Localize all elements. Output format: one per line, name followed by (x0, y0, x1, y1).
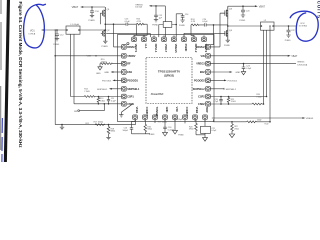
wire PGOOD2 (210, 80, 226, 82)
resistor R18 (107, 124, 110, 138)
svg-text:PGOOD1: PGOOD1 (102, 80, 112, 82)
ground C23 (241, 72, 245, 75)
wire VIN to VBAT (210, 55, 290, 57)
svg-text:PGND: PGND (285, 40, 291, 42)
svg-text:PGOOD2: PGOOD2 (228, 81, 238, 83)
wire PGOOD1 (112, 80, 121, 82)
svg-text:3.3 V/8 A: 3.3 V/8 A (299, 25, 308, 28)
svg-text:7.5kΩ: 7.5kΩ (84, 91, 90, 93)
svg-text:5 V/8 A: 5 V/8 A (28, 33, 35, 36)
svg-text:0.1µF: 0.1µF (111, 101, 117, 103)
svg-text:10kΩ: 10kΩ (257, 120, 262, 122)
svg-text:CUITS: CUITS (317, 1, 320, 19)
capacitor C24 (204, 23, 227, 26)
svg-text:100 mA: 100 mA (135, 6, 142, 9)
node VBAT left (80, 6, 105, 8)
resistor R24 (191, 24, 204, 37)
svg-text:3.3V/100mA: 3.3V/100mA (297, 63, 308, 66)
svg-text:DRVL1: DRVL1 (154, 44, 158, 53)
svg-text:VBST2: VBST2 (204, 44, 208, 53)
svg-text:VBAT: VBAT (72, 5, 79, 9)
wire DRVH2 bootstrap (210, 25, 213, 45)
svg-text:4.7Ω: 4.7Ω (137, 21, 142, 23)
svg-text:Figure 54. Current Mode, DCR S: Figure 54. Current Mode, DCR Sensing, 5-… (18, 2, 23, 149)
ground GND RF (98, 67, 102, 70)
svg-text:RF: RF (127, 63, 131, 66)
wire SKIPSEL1 (109, 88, 122, 90)
svg-text:TPS51220ARTV: TPS51220ARTV (158, 69, 180, 73)
wire L1 sense legs (71, 34, 75, 104)
pin labels top row vertical (134, 44, 208, 53)
wire SW1 to L1 (80, 29, 106, 31)
resistor R17 (95, 124, 105, 126)
svg-text:PowerPAD: PowerPAD (151, 93, 164, 96)
svg-text:EN2: EN2 (200, 71, 205, 74)
capacitor C13 (126, 23, 136, 26)
svg-text:VBAT: VBAT (259, 5, 266, 8)
labels small gray (28, 4, 314, 136)
capacitor C23 (242, 63, 246, 72)
svg-text:V5FILT: V5FILT (164, 44, 168, 53)
svg-text:VBST1: VBST1 (134, 44, 138, 53)
resistor R23 (247, 121, 271, 123)
node VREG5 (149, 5, 165, 37)
wire CSN1 (74, 103, 122, 105)
ground PGND C10 (90, 15, 94, 17)
PowerPAD callout (119, 104, 133, 118)
wire EN1 (111, 71, 122, 73)
pin labels bottom row vertical (135, 107, 209, 118)
page edge line (0, 0, 2, 150)
wire cluster L gnd (132, 133, 150, 135)
transistor Q3 (225, 6, 228, 19)
svg-text:R19 100kΩ: R19 100kΩ (158, 122, 168, 124)
wire divider VO2 (214, 119, 247, 121)
annotation blue loop right (290, 11, 318, 41)
svg-text:COMP1: COMP1 (145, 107, 149, 117)
wire VO1 feedback (55, 29, 56, 124)
wire DRVL2 (184, 33, 225, 37)
resistor R20 (195, 119, 205, 134)
svg-text:VO2: VO2 (300, 23, 305, 25)
svg-text:100kΩ: 100kΩ (101, 61, 107, 63)
ground PGND C15 (154, 20, 158, 22)
capacitor C21 box (201, 119, 211, 137)
svg-text:56kΩ: 56kΩ (147, 129, 152, 131)
capacitor C16 (130, 121, 135, 134)
resistor R22 (231, 121, 234, 134)
blue margin marks (1, 118, 4, 162)
transistor Q1 (102, 7, 105, 19)
resistor R12 (71, 96, 122, 98)
ground R18 (106, 137, 110, 139)
resistor R10 RF pin (100, 63, 122, 67)
svg-text:EN1: EN1 (127, 71, 132, 74)
capacitor C18 (163, 119, 166, 132)
svg-text:0.1µF: 0.1µF (125, 21, 131, 23)
svg-text:0.1µF: 0.1µF (211, 130, 217, 132)
capacitor C12 (55, 29, 59, 38)
svg-text:GND: GND (96, 73, 101, 75)
svg-text:TONSEL: TONSEL (155, 107, 159, 118)
ground PGND C12 (55, 39, 59, 41)
capacitor C14 (175, 14, 184, 26)
resistor R25 (227, 96, 229, 105)
annotation blue loop left (24, 4, 46, 48)
capacitor C26 (219, 96, 222, 105)
ground R22 (229, 134, 234, 138)
capacitor C10 (90, 6, 94, 15)
svg-text:COMP2: COMP2 (185, 107, 189, 117)
svg-text:PGND: PGND (178, 134, 184, 136)
chip outer ring (118, 35, 215, 122)
resistor R26 CSN2 (210, 103, 264, 105)
svg-text:0.22µF: 0.22µF (168, 129, 175, 131)
wire pad stubs (134, 35, 205, 123)
svg-text:VREG3: VREG3 (196, 63, 205, 66)
svg-text:LL1: LL1 (144, 44, 148, 49)
chip QFN body dashed (146, 58, 192, 104)
svg-text:GND: GND (150, 134, 155, 136)
wire VBST1 route (134, 24, 147, 37)
ground GND pin (173, 130, 178, 134)
svg-text:VREG3: VREG3 (306, 118, 314, 120)
capacitor C22 (287, 25, 291, 35)
svg-text:V5IN: V5IN (87, 55, 92, 57)
ground PGND C22 (286, 35, 290, 37)
wire VO2 feedback (269, 25, 270, 121)
wire EN2 (210, 71, 232, 73)
svg-text:3.3kΩ: 3.3kΩ (231, 101, 236, 103)
svg-text:CSP1: CSP1 (127, 96, 134, 99)
svg-text:R17 100kΩ: R17 100kΩ (94, 122, 104, 124)
svg-text:3.3kΩ: 3.3kΩ (100, 101, 106, 103)
wire GND pin (174, 119, 176, 130)
svg-text:SKIPSEL2: SKIPSEL2 (193, 88, 206, 91)
resistor R15 (136, 23, 147, 25)
svg-text:VFB1: VFB1 (135, 107, 139, 114)
svg-text:GND: GND (165, 107, 169, 113)
svg-text:39kΩ: 39kΩ (189, 129, 194, 131)
svg-text:VREG5: VREG5 (174, 44, 178, 53)
svg-text:PGND: PGND (224, 45, 230, 47)
wire RF net (78, 103, 105, 112)
svg-text:SKIPSEL2: SKIPSEL2 (226, 89, 237, 91)
svg-text:DRVL2: DRVL2 (194, 44, 198, 53)
chip texts (127, 46, 205, 106)
svg-text:7.5kΩ: 7.5kΩ (256, 97, 262, 99)
capacitor C20 (241, 6, 245, 15)
node VBAT right (228, 5, 258, 7)
svg-text:68kΩ: 68kΩ (111, 131, 116, 133)
ground PGND Q2 (103, 41, 107, 43)
ground PGND C20 (241, 15, 245, 17)
chip pads (122, 37, 211, 119)
wire CSP2 (210, 96, 267, 98)
wire V5DRV (54, 55, 121, 57)
ground PGND Q4 (226, 40, 230, 42)
svg-text:PGND: PGND (179, 25, 185, 27)
svg-text:C14: C14 (185, 14, 188, 16)
svg-text:SKIPSEL1: SKIPSEL1 (97, 89, 108, 91)
svg-text:VO1: VO1 (30, 31, 35, 33)
svg-text:TRIP: TRIP (205, 107, 209, 113)
wire DRVH2 gate (210, 13, 225, 47)
inductor L1 (42, 26, 81, 34)
svg-text:L1 4.4µH: L1 4.4µH (71, 24, 80, 26)
svg-text:PGOOD1: PGOOD1 (127, 79, 138, 82)
inductor L2 (261, 22, 298, 30)
transistor Q2 (102, 29, 105, 41)
svg-text:27kΩ: 27kΩ (234, 129, 239, 131)
ferrite bead box (159, 22, 176, 37)
binder bar (4, 0, 10, 162)
svg-text:PGOOD2: PGOOD2 (194, 79, 205, 82)
wire DRVH1 (113, 23, 122, 47)
svg-text:CSN1: CSN1 (127, 103, 134, 106)
svg-text:V3R: V3R (175, 107, 179, 112)
wire SW1 bootstrap (105, 19, 126, 29)
svg-text:CSN2: CSN2 (198, 103, 205, 106)
transistor Q4 (225, 29, 228, 40)
svg-text:0.1µF: 0.1µF (202, 21, 208, 23)
capacitor C15 (154, 5, 158, 20)
ground C18 (163, 132, 168, 136)
svg-text:CSP2: CSP2 (198, 96, 205, 99)
svg-text:4.7Ω: 4.7Ω (191, 21, 196, 23)
wire divider VO1 (55, 119, 135, 124)
pin 1 indicator (127, 43, 129, 45)
wire VREG3 bus (212, 117, 305, 119)
ground cluster R (203, 138, 208, 142)
svg-text:PGND: PGND (102, 46, 109, 48)
svg-text:GND: GND (104, 72, 109, 74)
svg-text:3.3µF: 3.3µF (246, 68, 252, 70)
wire VREG3 out (210, 63, 296, 65)
wire SW2 to L2 (227, 19, 261, 29)
capacitor C11 (107, 96, 110, 105)
svg-text:VFB2: VFB2 (195, 107, 199, 114)
wire DRVL1 (106, 33, 150, 37)
svg-text:SKIPSEL1: SKIPSEL1 (127, 88, 140, 91)
svg-text:C17 3.3µF: C17 3.3µF (174, 119, 183, 121)
wire L2 sense legs (264, 30, 267, 104)
svg-text:PGND: PGND (152, 24, 158, 26)
svg-text:PGND: PGND (53, 44, 59, 46)
svg-text:VBAT: VBAT (291, 55, 297, 58)
svg-text:VREG3: VREG3 (297, 61, 305, 63)
svg-text:PGND: PGND (184, 44, 188, 52)
ground divider left (60, 124, 64, 130)
svg-text:(QFN32): (QFN32) (164, 74, 174, 78)
svg-text:PGND: PGND (89, 20, 96, 22)
svg-text:GND: GND (235, 72, 240, 74)
resistor R13 (97, 96, 99, 105)
svg-text:PGND: PGND (239, 20, 245, 22)
svg-text:V5DRV: V5DRV (127, 55, 136, 58)
svg-text:VIN: VIN (201, 55, 205, 58)
resistor R16 (144, 119, 147, 133)
ground PGND C14 (180, 20, 184, 22)
svg-text:560pF: 560pF (123, 130, 129, 132)
wire SKIPSEL2 (210, 88, 224, 90)
